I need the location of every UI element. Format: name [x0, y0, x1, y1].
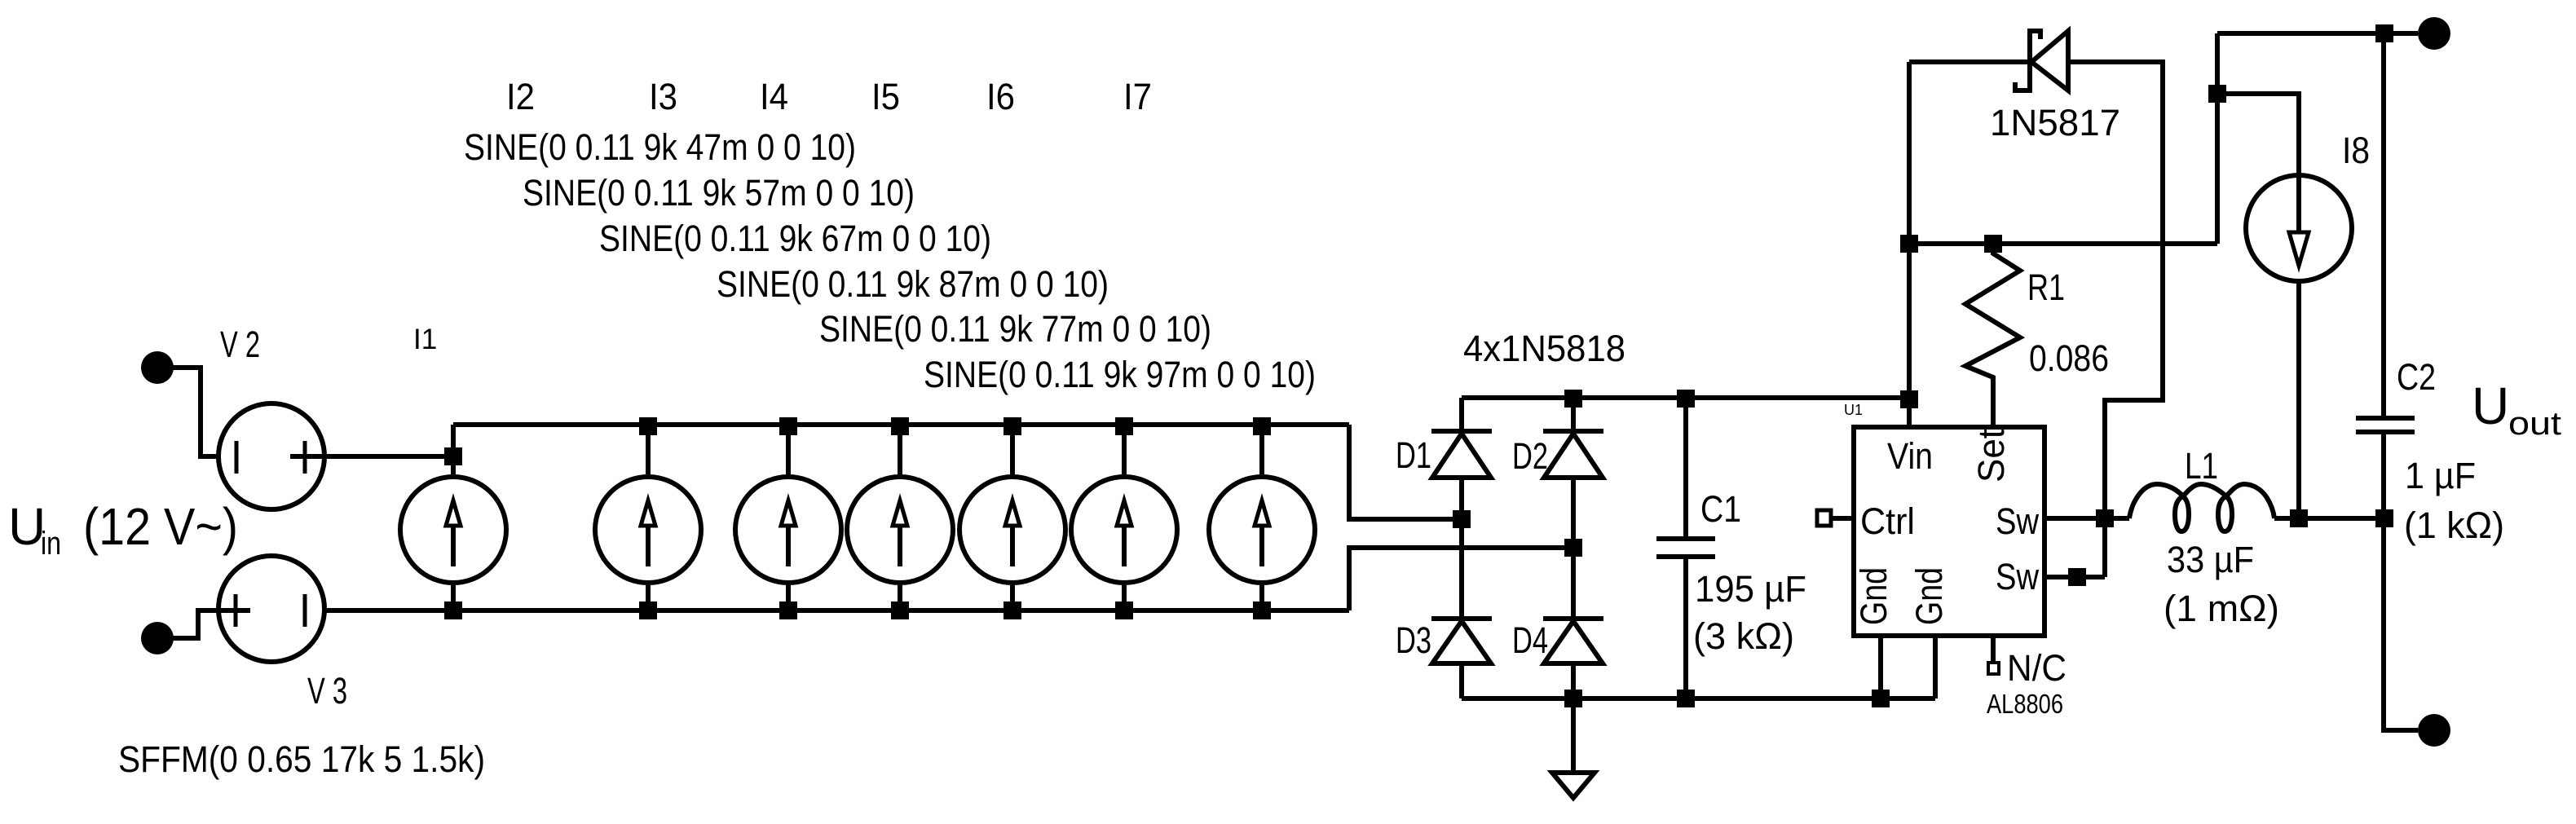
junction I8 branch: [2208, 85, 2226, 103]
svg-text:1N5817: 1N5817: [1990, 102, 2120, 143]
svg-text:Gnd: Gnd: [1853, 567, 1895, 625]
wire bridge bottom rail: [1462, 696, 1935, 701]
svg-text:(1 kΩ): (1 kΩ): [2404, 505, 2504, 546]
terminal dot output top: [2418, 17, 2450, 50]
svg-text:I8: I8: [2342, 130, 2370, 171]
svg-text:Gnd: Gnd: [1908, 567, 1950, 625]
wire I5 stubs: [1010, 425, 1015, 610]
svg-text:D3: D3: [1396, 619, 1431, 661]
wire Gnd pin 2: [1933, 637, 1938, 698]
wire AC2 bottom rail to bridge D2-D4 node: [1349, 548, 1573, 610]
resistor R1: [1965, 244, 2020, 427]
U1 AL8806 box: [1854, 427, 2044, 636]
junction I2 top rail: [639, 417, 657, 435]
svg-text:SINE(0 0.11 9k 57m 0 0 10): SINE(0 0.11 9k 57m 0 0 10): [523, 172, 915, 214]
wire 1N5817 anode lead to Sw node: [2068, 62, 2163, 577]
wire Vin vertical (1N5817 cathode to Vin pin): [1907, 62, 1912, 425]
junction I5 bottom rail: [1003, 601, 1021, 619]
svg-text:SFFM(0 0.65 17k 5 1.5k): SFFM(0 0.65 17k 5 1.5k): [118, 738, 485, 780]
capacitor C2: [2356, 418, 2415, 432]
wire I8 top link: [2217, 94, 2299, 174]
junction I1 top: [444, 447, 462, 465]
svg-text:D1: D1: [1396, 434, 1431, 476]
wire I3 stubs: [786, 425, 791, 610]
svg-text:195 µF: 195 µF: [1695, 568, 1806, 610]
junction I7 top rail: [1253, 417, 1271, 435]
wire top rail: [453, 422, 1349, 427]
junction I1 bottom rail: [444, 601, 462, 619]
svg-text:1 µF: 1 µF: [2405, 455, 2476, 496]
junction AC1 node: [1453, 510, 1471, 528]
svg-text:D2: D2: [1512, 435, 1548, 477]
wire Gnd pin 1: [1878, 637, 1883, 698]
current source I1: [400, 477, 506, 583]
wire I8 bottom: [2296, 282, 2301, 518]
svg-text:0.086: 0.086: [2029, 337, 2109, 379]
voltage source V2: [218, 403, 324, 509]
svg-text:I6: I6: [986, 76, 1015, 117]
junction R1 rail left: [1900, 235, 1918, 253]
svg-text:4x1N5818: 4x1N5818: [1463, 328, 1625, 369]
junction C2 mid: [2375, 509, 2393, 527]
wire Uout top feed: [2215, 33, 2220, 244]
wire N/C stub: [1991, 633, 1996, 663]
junction I6 top rail: [1115, 417, 1133, 435]
current source I3: [735, 477, 841, 583]
svg-text:(3 kΩ): (3 kΩ): [1693, 615, 1794, 657]
wire D1 anode to D3 cathode: [1459, 478, 1464, 619]
wire C2 top lead: [2381, 33, 2386, 416]
svg-text:N/C: N/C: [2007, 647, 2067, 689]
svg-text:V 2: V 2: [220, 324, 260, 365]
svg-text:V 3: V 3: [307, 670, 347, 712]
wire V2 right to I1 top junction: [290, 454, 453, 459]
terminal dot input top: [141, 351, 174, 384]
svg-text:33 µF: 33 µF: [2167, 539, 2254, 580]
svg-text:I1: I1: [413, 324, 437, 355]
schottky diode 1N5817: [2015, 31, 2040, 90]
diode D2: [1543, 429, 1603, 434]
wire AC1 top rail to bridge D1-D3 node: [1349, 425, 1462, 519]
junction I2 bottom rail: [639, 601, 657, 619]
wire V2 terminal to V2 left: [157, 368, 218, 456]
junction I6 bottom rail: [1115, 601, 1133, 619]
junction Vin node: [1900, 390, 1918, 408]
terminal dot output bottom: [2418, 714, 2450, 747]
N/C pin square: [1988, 663, 1999, 674]
wire 1N5817 cathode lead: [1909, 59, 2030, 64]
wire R1 top rail: [1909, 241, 2217, 246]
svg-text:L1: L1: [2185, 445, 2218, 487]
junction I5 top rail: [1003, 417, 1021, 435]
diode D1: [1431, 429, 1492, 434]
Ctrl pin square: [1817, 510, 1831, 526]
inductor L1: [2129, 484, 2274, 531]
wire D3 anode down: [1459, 663, 1464, 698]
wire Sw2 pin: [2044, 575, 2105, 579]
diode D3: [1431, 616, 1492, 621]
junction C1 top: [1677, 390, 1695, 408]
current source I6: [1071, 477, 1177, 583]
svg-text:C1: C1: [1700, 488, 1741, 530]
junction I4 top rail: [891, 417, 909, 435]
current source I7: [1209, 477, 1315, 583]
wire I1 bottom stub: [451, 585, 456, 610]
svg-text:D4: D4: [1512, 619, 1548, 661]
junction C1 bottom: [1677, 690, 1695, 707]
svg-text:(12 V~): (12 V~): [83, 497, 238, 556]
junction C2 top: [2375, 24, 2393, 42]
wire Sw pin to L1: [2044, 516, 2129, 521]
wire D2 anode to D4 cathode: [1571, 478, 1576, 619]
svg-text:U1: U1: [1844, 402, 1863, 418]
junction R1 top: [1984, 235, 2002, 253]
junction Gnd pin 1: [1872, 690, 1890, 707]
wire bridge top rail: [1462, 395, 1909, 400]
wire D2 cathode up: [1571, 398, 1576, 432]
junction I3 top rail: [779, 417, 797, 435]
svg-text:I2: I2: [506, 76, 535, 117]
wire L1 right to C2 node: [2274, 516, 2384, 521]
svg-text:Sw: Sw: [1996, 500, 2039, 542]
svg-text:SINE(0 0.11 9k 47m 0 0 10): SINE(0 0.11 9k 47m 0 0 10): [464, 126, 856, 168]
wire C2 bottom lead to bottom terminal: [2384, 434, 2418, 730]
svg-text:I5: I5: [871, 76, 900, 117]
wire D1 cathode up: [1459, 398, 1464, 432]
svg-text:I4: I4: [760, 76, 788, 117]
wire Ctrl pin: [1831, 516, 1854, 521]
voltage source V3: [218, 556, 324, 662]
capacitor C1: [1656, 539, 1715, 557]
current source I5: [959, 477, 1065, 583]
svg-text:I7: I7: [1123, 76, 1152, 117]
svg-text:SINE(0 0.11 9k 77m 0 0 10): SINE(0 0.11 9k 77m 0 0 10): [819, 308, 1211, 350]
svg-text:SINE(0 0.11 9k 97m 0 0 10): SINE(0 0.11 9k 97m 0 0 10): [924, 354, 1316, 395]
junction AC2 node: [1564, 539, 1582, 557]
svg-text:Sw: Sw: [1996, 556, 2039, 597]
svg-text:R1: R1: [2027, 267, 2065, 308]
svg-text:SINE(0 0.11 9k 87m 0 0 10): SINE(0 0.11 9k 87m 0 0 10): [717, 263, 1109, 305]
current source I8: [2246, 175, 2352, 281]
svg-text:Set: Set: [1970, 429, 2012, 483]
wire V3 terminal to V3 left: [157, 610, 250, 638]
junction I7 bottom rail: [1253, 601, 1271, 619]
junction ground node: [1564, 690, 1582, 707]
svg-text:SINE(0 0.11 9k 67m 0 0 10): SINE(0 0.11 9k 67m 0 0 10): [599, 218, 991, 259]
wire I7 stubs: [1259, 425, 1264, 610]
svg-text:out: out: [2508, 406, 2561, 442]
wire I1 top stub: [451, 425, 456, 474]
wire C1 top lead: [1683, 398, 1688, 536]
svg-text:in: in: [41, 526, 61, 562]
wire ground stem: [1571, 698, 1576, 773]
junction Sw1 node: [2096, 509, 2114, 527]
current source I2: [595, 477, 701, 583]
wire D4 anode down: [1571, 663, 1576, 698]
junction Sw2 pin: [2068, 568, 2086, 586]
junction I3 bottom rail: [779, 601, 797, 619]
junction D2 top: [1564, 390, 1582, 408]
wire I2 stubs: [646, 425, 651, 610]
svg-text:(1 mΩ): (1 mΩ): [2164, 588, 2279, 629]
ground: [1552, 773, 1595, 798]
wire bottom rail: [324, 608, 1349, 613]
terminal dot input bottom: [141, 622, 174, 654]
wire I4 stubs: [898, 425, 902, 610]
svg-text:U: U: [2472, 377, 2509, 435]
wire I6 stubs: [1122, 425, 1127, 610]
svg-text:C2: C2: [2397, 356, 2436, 398]
wire C1 bottom lead: [1683, 559, 1688, 698]
junction I8 bottom: [2290, 509, 2308, 527]
diode D4: [1543, 616, 1603, 621]
svg-text:Vin: Vin: [1887, 435, 1933, 477]
current source I4: [847, 477, 953, 583]
svg-text:Ctrl: Ctrl: [1860, 500, 1915, 542]
wire top output rail: [2217, 31, 2418, 36]
svg-text:I3: I3: [649, 76, 677, 117]
svg-text:AL8806: AL8806: [1987, 689, 2063, 719]
junction I4 bottom rail: [891, 601, 909, 619]
